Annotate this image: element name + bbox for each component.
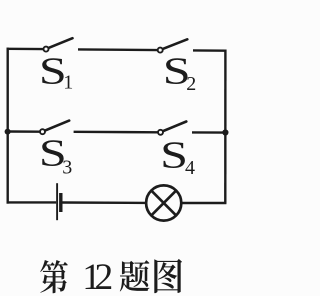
battery negative plate (short thick) (59, 193, 62, 212)
caption glyph di 第 (40, 260, 68, 293)
wire left vertical (6, 48, 8, 204)
wire left node to S3 (8, 130, 40, 133)
switch S3 pivot (40, 129, 45, 134)
wire bottom left to battery (7, 201, 57, 203)
wire S3 contact to S4 (74, 131, 159, 134)
switch S3 blade (44, 121, 69, 131)
lamp cross (151, 191, 176, 216)
switch S1 blade (48, 38, 73, 48)
node junction right (222, 129, 228, 135)
wire right vertical (224, 50, 226, 204)
caption glyph ti 题 (120, 260, 150, 291)
wire S2 contact to top-right (193, 49, 226, 52)
svg-text:S: S (160, 133, 188, 176)
switch S4 blade (162, 122, 186, 132)
label S1 (39, 49, 67, 92)
label S4 (160, 133, 188, 176)
caption glyph tu 图 (154, 259, 182, 293)
label S2 (163, 49, 191, 92)
label S3 (39, 131, 67, 174)
battery positive plate (long) (56, 183, 58, 220)
switch S4 pivot (158, 130, 163, 135)
wire S1 contact to S2 (78, 48, 158, 51)
wire bottom lamp to right (181, 202, 226, 204)
wire bottom battery to lamp (62, 201, 147, 204)
svg-text:1: 1 (63, 72, 73, 94)
wire top-left to S1 (7, 48, 44, 51)
switch S2 pivot (158, 48, 163, 53)
wire S4 contact to right node (192, 131, 225, 134)
switch S1 pivot (44, 47, 49, 52)
svg-text:3: 3 (62, 156, 72, 178)
lamp circle (146, 185, 181, 220)
svg-text:2: 2 (95, 257, 114, 296)
svg-text:4: 4 (185, 157, 195, 179)
svg-text:2: 2 (186, 73, 196, 95)
node junction left (5, 129, 11, 135)
switch S2 blade (162, 39, 188, 49)
